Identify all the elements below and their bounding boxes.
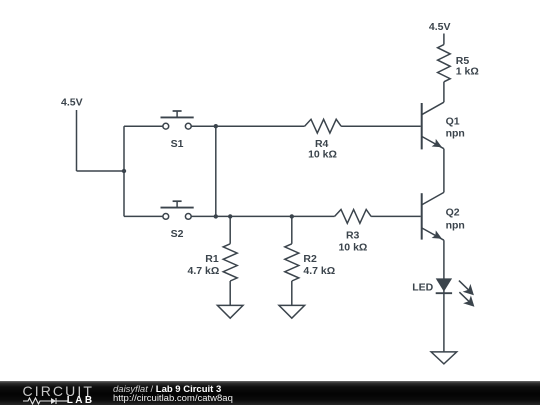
wire: S1 left lead (124, 125, 163, 127)
svg-text:LED: LED (412, 282, 433, 294)
wire: R5 to Q1 collector (443, 82, 445, 102)
footer bar (0, 381, 540, 405)
ground (under LED) (431, 352, 457, 364)
svg-text:R1: R1 (205, 253, 219, 265)
junction: left rail (122, 169, 126, 173)
resistor R4 (305, 119, 341, 133)
resistor R2 (285, 216, 299, 305)
svg-text:1 kΩ: 1 kΩ (456, 66, 479, 78)
wire: top supply stem (443, 34, 445, 45)
switch S2 (pushbutton) (161, 201, 194, 219)
wire: left rail horizontal (77, 170, 125, 172)
svg-text:10 kΩ: 10 kΩ (308, 149, 337, 161)
svg-text:S2: S2 (171, 228, 184, 240)
footer url (113, 394, 233, 404)
svg-text:R3: R3 (346, 230, 360, 242)
wire: R4 to Q1 base (341, 125, 421, 127)
ground (under R2) (279, 305, 305, 318)
resistor R5 (438, 45, 451, 82)
svg-text:4.5V: 4.5V (61, 97, 83, 109)
LED (diode symbol) (436, 278, 452, 293)
svg-text:S1: S1 (171, 138, 184, 150)
wire: middle vertical tie (215, 126, 217, 216)
CircuitLab logo text LAB (67, 396, 95, 405)
CircuitLab logo symbol (resistor + diode) (23, 397, 69, 405)
ground (under R1) (217, 305, 243, 318)
svg-text:Q1: Q1 (446, 116, 460, 128)
junction: R2 tap (290, 214, 294, 218)
switch S1 (pushbutton) (161, 111, 194, 129)
wire: left supply stem (76, 110, 78, 171)
wire: Q1 emitter to Q2 collector (443, 149, 445, 193)
wire: R3 to Q2 base (371, 215, 421, 217)
svg-text:Q2: Q2 (446, 207, 460, 219)
footer title: daisyflat / Lab 9 Circuit 3 (113, 385, 221, 395)
wire: S2 left lead (124, 215, 163, 217)
wire: left rail vertical (123, 126, 125, 216)
junction: R1 tap (228, 214, 232, 218)
resistor R1 (223, 216, 237, 305)
transistor Q2 (422, 192, 444, 240)
svg-text:npn: npn (446, 127, 465, 139)
svg-text:4.7 kΩ: 4.7 kΩ (303, 265, 335, 277)
LED light arrow 2 (459, 292, 474, 307)
svg-text:10 kΩ: 10 kΩ (338, 242, 367, 254)
junction: node B1 (214, 124, 218, 128)
svg-text:R2: R2 (303, 253, 317, 265)
wire: S2 to R3 (191, 215, 334, 217)
wire: S1 to R4 (191, 125, 304, 127)
svg-text:4.5V: 4.5V (429, 21, 451, 33)
svg-text:npn: npn (446, 219, 465, 231)
wire: Q2 emitter to LED and ground (443, 240, 445, 352)
junction: node B2 (214, 214, 218, 218)
resistor R3 (335, 210, 371, 224)
CircuitLab logo text CIRCUIT (23, 385, 94, 397)
transistor Q1 (422, 102, 444, 149)
svg-text:4.7 kΩ: 4.7 kΩ (188, 265, 220, 277)
LED light arrow 1 (459, 281, 474, 296)
